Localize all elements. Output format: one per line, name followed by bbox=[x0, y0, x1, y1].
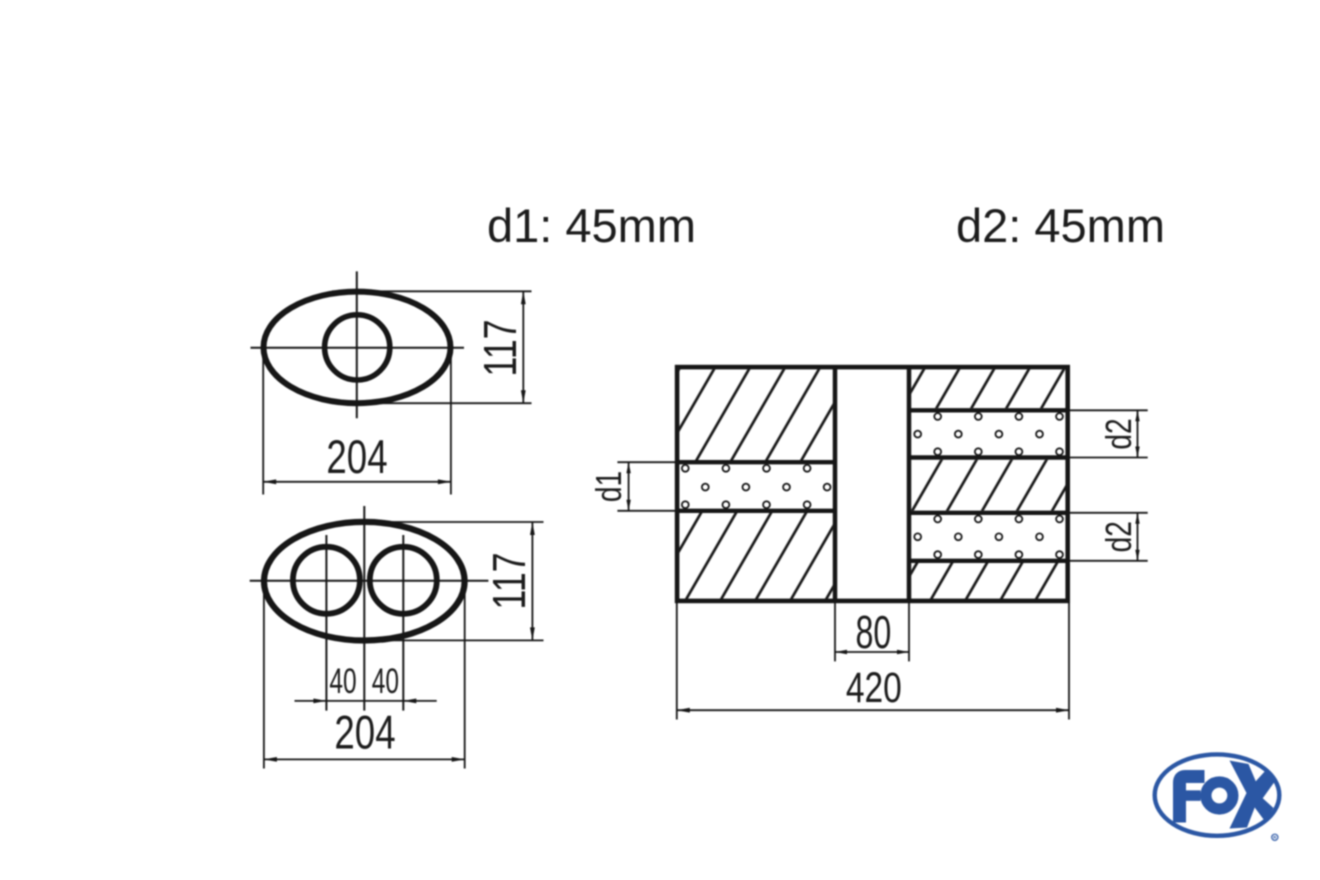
extension line left 204 A bbox=[262, 351, 264, 495]
extension line 80 left bbox=[834, 603, 836, 661]
right baffle line 1 bbox=[911, 408, 1070, 412]
centerline vertical A bbox=[356, 271, 358, 418]
hatching right bottom bbox=[911, 563, 1068, 599]
centerline vertical oval B bbox=[363, 506, 365, 711]
dimension line d2a bbox=[1137, 410, 1139, 457]
extension line top 117 B bbox=[340, 521, 544, 523]
dimension line 80 bbox=[835, 651, 909, 653]
extension line 420 left bbox=[676, 603, 678, 720]
centerline horizontal B bbox=[250, 580, 489, 582]
svg-text:40: 40 bbox=[372, 663, 399, 701]
dimension line 204 B bbox=[264, 758, 465, 760]
right pipe circle B bbox=[370, 547, 437, 614]
dimension line 204 A bbox=[263, 481, 451, 483]
right baffle line 4 bbox=[911, 559, 1070, 563]
extension line left 204 B bbox=[263, 586, 265, 769]
extension line d2b top bbox=[1070, 512, 1148, 514]
FOX logo letter X chevron bbox=[1230, 761, 1261, 829]
svg-text:420: 420 bbox=[846, 664, 902, 712]
svg-text:117: 117 bbox=[484, 552, 535, 609]
registered trademark bbox=[1272, 834, 1278, 840]
FOX logo letter F bbox=[1180, 777, 1205, 823]
centerline horizontal A bbox=[251, 347, 465, 349]
right baffle line 3 bbox=[911, 511, 1070, 515]
extension line d1 top bbox=[617, 461, 675, 463]
svg-text:d1: d1 bbox=[589, 471, 629, 502]
dimension line 40/40 B bbox=[295, 700, 437, 702]
svg-text:d2: d2 bbox=[1099, 521, 1139, 552]
extension line top 117 A bbox=[332, 290, 532, 292]
hatching right middle bbox=[911, 460, 1068, 511]
dimension line 117 B bbox=[531, 522, 533, 640]
svg-text:d1: 45mm: d1: 45mm bbox=[487, 199, 696, 252]
dimension line d2b bbox=[1137, 513, 1139, 561]
perforation right d2 bottom band bbox=[914, 516, 1063, 558]
extension line d2a top bbox=[1070, 409, 1148, 411]
svg-text:204: 204 bbox=[334, 706, 395, 758]
inner pipe circle A bbox=[325, 315, 390, 380]
dimension line d1 bbox=[628, 462, 630, 511]
svg-text:40: 40 bbox=[329, 663, 356, 701]
svg-text:80: 80 bbox=[855, 607, 891, 658]
extension line bottom 117 A bbox=[332, 402, 532, 404]
oval shell A bbox=[264, 292, 451, 404]
svg-text:d2: d2 bbox=[1099, 418, 1139, 449]
extension line 420 right bbox=[1068, 603, 1070, 720]
chamber wall right bbox=[907, 367, 912, 601]
extension line 80 right bbox=[908, 603, 910, 661]
svg-text:204: 204 bbox=[326, 431, 387, 483]
chamber wall left bbox=[833, 367, 838, 601]
FOX logo ellipse bbox=[1155, 754, 1280, 835]
centerline right circle B bbox=[402, 535, 404, 711]
dimension line 117 A bbox=[522, 291, 524, 403]
FOX logo letter O bbox=[1206, 782, 1233, 809]
left pipe circle B bbox=[293, 547, 360, 614]
hatching right top bbox=[911, 369, 1068, 408]
svg-text:d2: 45mm: d2: 45mm bbox=[956, 199, 1165, 252]
extension line d1 bottom bbox=[617, 510, 675, 512]
centerline left circle B bbox=[325, 535, 327, 711]
extension line d2b bottom bbox=[1070, 560, 1148, 562]
perforation right d2 top band bbox=[914, 413, 1063, 455]
FOX logo letter X lower right arm bbox=[1250, 789, 1274, 822]
dimension line 420 bbox=[677, 709, 1069, 711]
left baffle line top bbox=[675, 460, 833, 464]
right baffle line 2 bbox=[911, 455, 1070, 459]
hatching left top bbox=[679, 369, 833, 460]
perforation left d1 band bbox=[682, 465, 831, 508]
svg-text:117: 117 bbox=[475, 319, 526, 376]
hatching left bottom bbox=[679, 513, 833, 599]
extension line right 204 B bbox=[464, 586, 466, 769]
oval shell B bbox=[264, 522, 465, 641]
extension line bottom 117 B bbox=[340, 639, 544, 641]
extension line d2a bottom bbox=[1070, 457, 1148, 459]
left baffle line bottom bbox=[675, 509, 833, 513]
muffler body outline bbox=[677, 367, 1068, 601]
FOX logo letter X upper right arm bbox=[1251, 770, 1276, 800]
extension line right 204 A bbox=[450, 351, 452, 495]
